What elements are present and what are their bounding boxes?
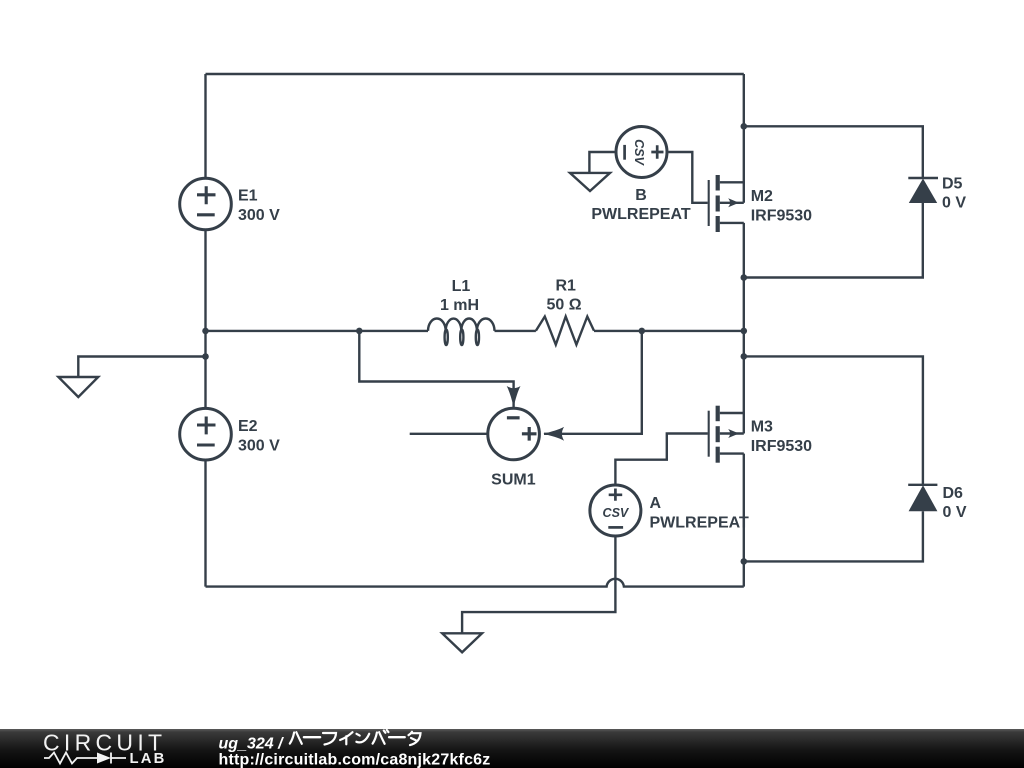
transistor M3: [709, 406, 744, 463]
wire A source top to M3 gate: [615, 434, 707, 485]
svg-text:LAB: LAB: [130, 751, 167, 767]
svg-text:E1: E1: [238, 187, 258, 204]
voltage source E2: [180, 408, 232, 460]
wire D6 branch top: [744, 356, 923, 485]
voltage source E1: [180, 178, 232, 230]
wire mid rail left: [206, 330, 429, 332]
svg-text:1 mH: 1 mH: [440, 297, 479, 314]
i: [340, 732, 352, 744]
svg-text:PWLREPEAT: PWLREPEAT: [650, 514, 749, 531]
svg-text:CSV: CSV: [603, 506, 630, 520]
wire top rail: [206, 73, 744, 75]
diode D5: [908, 178, 938, 203]
svg-text:M3: M3: [751, 419, 773, 436]
ha: [290, 732, 302, 744]
wire D5 branch: [744, 126, 923, 178]
svg-text:CSV: CSV: [632, 139, 646, 166]
wire mid rail between L1 and R1: [495, 330, 536, 332]
svg-text:PWLREPEAT: PWLREPEAT: [591, 206, 690, 223]
fu: [323, 733, 336, 745]
ground left: [58, 377, 98, 397]
svg-text:0 V: 0 V: [943, 504, 967, 521]
svg-text:SUM1: SUM1: [491, 472, 536, 489]
title katakana ha-fuinba-ta: [290, 730, 421, 745]
svg-text:R1: R1: [555, 278, 576, 295]
resistor R1: [536, 317, 594, 345]
inductor L1: [428, 318, 495, 345]
svg-text:M2: M2: [751, 188, 773, 205]
wire mid rail right: [594, 330, 744, 332]
ta: [409, 732, 421, 745]
node dot: [741, 558, 748, 565]
wire M2 drain vertical: [743, 74, 745, 203]
svg-text:http://circuitlab.com/ca8njk27: http://circuitlab.com/ca8njk27kfc6z: [219, 752, 491, 768]
svg-text:300 V: 300 V: [238, 207, 280, 224]
node dot: [741, 123, 748, 130]
node dot: [202, 328, 209, 335]
long dash: [389, 736, 405, 738]
svg-text:IRF9530: IRF9530: [751, 208, 812, 225]
svg-text:B: B: [635, 187, 647, 204]
svg-text:ug_324 /: ug_324 /: [219, 735, 285, 752]
wire SUM1 right feed: [544, 331, 642, 434]
node dot: [639, 328, 646, 335]
ba: [373, 730, 389, 744]
logo schematic glyph: [44, 753, 126, 764]
wire left ground stub: [78, 357, 205, 378]
node dot: [741, 274, 748, 281]
wire M3 source vertical to bottom rail: [743, 454, 745, 587]
wire bottom rail with hop: [206, 579, 744, 587]
wire B source right to M2 gate: [668, 152, 707, 203]
wire left vertical E2 bottom to bottom rail: [204, 460, 206, 587]
ground A: [442, 633, 482, 652]
CSV source A: [590, 485, 641, 536]
wire left vertical E1 bottom to E2 top: [204, 230, 206, 409]
wire D6 bottom: [744, 511, 923, 561]
node dot: [741, 353, 748, 360]
CSV source B: [616, 127, 667, 178]
svg-text:A: A: [650, 495, 662, 512]
transistor M2: [709, 175, 744, 232]
svg-text:IRF9530: IRF9530: [751, 438, 812, 455]
svg-text:0 V: 0 V: [942, 195, 966, 212]
wire SUM1 top feed: [359, 331, 513, 408]
svg-text:E2: E2: [238, 418, 258, 435]
diode D6: [908, 485, 937, 511]
node dot: [356, 328, 363, 335]
sum block SUM1: [488, 386, 564, 460]
svg-text:50 Ω: 50 Ω: [546, 297, 581, 314]
wire M2 source vertical down to M3: [743, 223, 745, 434]
wire SUM1 output stub: [410, 433, 488, 435]
svg-text:D5: D5: [942, 176, 963, 193]
svg-text:300 V: 300 V: [238, 437, 280, 454]
n: [356, 734, 369, 743]
svg-text:L1: L1: [452, 278, 471, 295]
wire D5 bottom: [744, 203, 923, 278]
svg-text:D6: D6: [943, 485, 964, 502]
ground B: [570, 173, 610, 191]
long dash: [304, 736, 320, 738]
wire A source bottom to ground: [462, 536, 615, 633]
node dot: [202, 353, 209, 360]
wire B source left to ground: [589, 152, 615, 173]
wire left vertical E1 top: [204, 74, 206, 178]
node dot: [741, 328, 748, 335]
